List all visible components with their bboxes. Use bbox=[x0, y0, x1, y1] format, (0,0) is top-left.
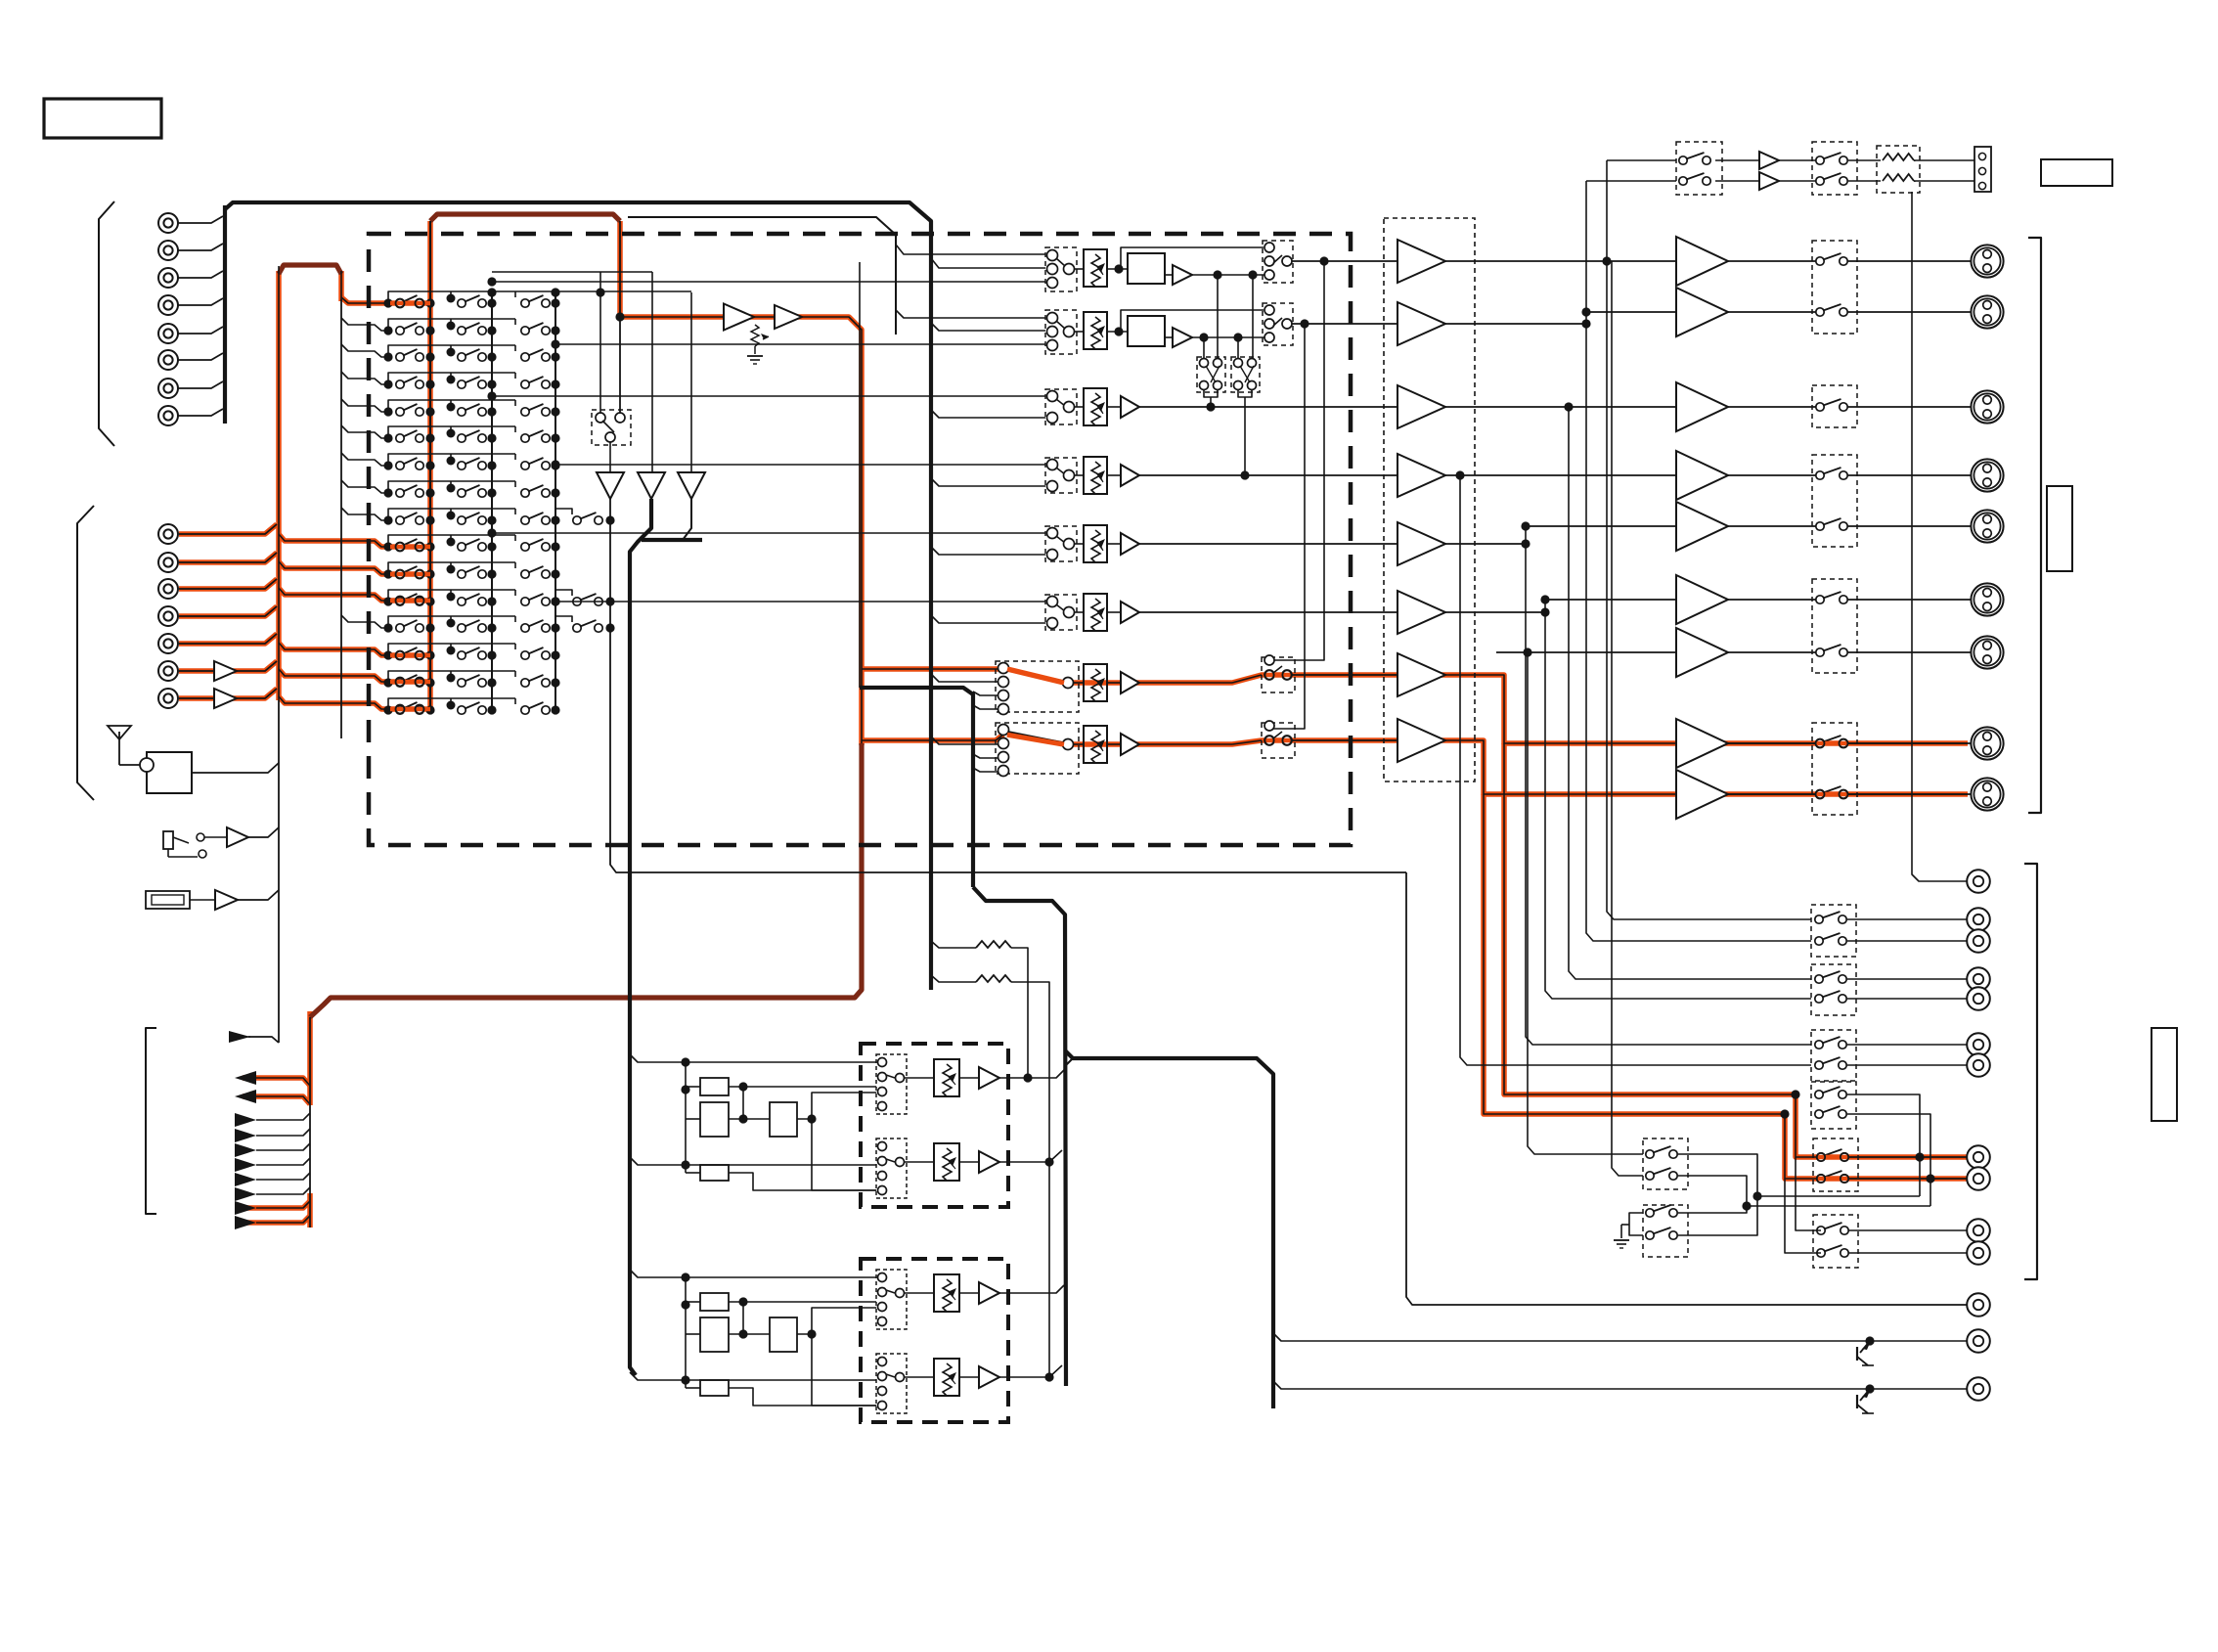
output mute switch bbox=[1816, 308, 1824, 316]
channel strip 4 selector bbox=[1045, 458, 1077, 493]
wire vbus8 bbox=[1612, 261, 1643, 1176]
label box phones bbox=[2041, 159, 2112, 186]
wire auxA out1 bbox=[999, 1070, 1064, 1078]
matrix row 6 bbox=[341, 425, 560, 443]
bracket mic inputs bbox=[77, 506, 94, 800]
strip 8 out switch bbox=[1262, 723, 1295, 758]
RCA bottom 3 bbox=[1967, 1377, 1990, 1401]
channel strip 3 fader bbox=[1084, 388, 1107, 425]
summing amp V2 bbox=[638, 472, 665, 499]
2tr out arrows bbox=[235, 1071, 256, 1085]
XLR output 7 bbox=[1971, 636, 2003, 668]
node s3 junction bbox=[1206, 402, 1215, 411]
wire A chain e bbox=[812, 1119, 876, 1190]
node s1 amp dots bbox=[1213, 270, 1221, 279]
orange switch box bbox=[1813, 1139, 1858, 1191]
wire B input 2 bbox=[630, 1372, 876, 1380]
wire out7 to switch bbox=[1728, 651, 1820, 653]
wire switch to xlr bbox=[1843, 406, 1971, 408]
wire v634 bbox=[619, 221, 621, 414]
wire msel out b bbox=[1678, 1176, 1930, 1206]
antenna bbox=[108, 726, 131, 765]
wire v667 bbox=[651, 272, 653, 472]
A amp 2 bbox=[979, 1151, 999, 1173]
wire rec single bbox=[1912, 192, 1968, 881]
wire auxA out2 bbox=[999, 1150, 1062, 1162]
B amp 2 bbox=[979, 1366, 999, 1388]
phones resistor box bbox=[1877, 146, 1920, 193]
channel strip 6 selector bbox=[1045, 595, 1077, 630]
resistor tap 1 bbox=[931, 941, 976, 948]
output mute switch bbox=[1816, 257, 1824, 265]
wire lower black b bbox=[1785, 1179, 1821, 1253]
wire switch to xlr bbox=[1843, 793, 1971, 795]
wire amp6 link bbox=[1445, 611, 1545, 613]
phones amp 1 bbox=[1759, 152, 1779, 169]
wire out5 bbox=[1526, 525, 1676, 527]
wire strip 3 out bbox=[1139, 406, 1397, 408]
channel strip 5 selector bbox=[1045, 526, 1077, 561]
channel strip 7 amp bbox=[1121, 672, 1139, 693]
wire out1 bbox=[1445, 260, 1676, 262]
wire phones feed 2 bbox=[1586, 180, 1676, 182]
resistor tap 2 bbox=[931, 975, 976, 982]
rec out switch box bbox=[1811, 905, 1856, 957]
matrix row 7 bbox=[341, 453, 560, 470]
wire lower black a bbox=[1796, 1157, 1821, 1230]
input jack A2 bbox=[158, 241, 178, 260]
input jack B5 bbox=[158, 634, 178, 653]
wire rec tap row4a bbox=[1847, 1094, 1920, 1196]
rec level pot bbox=[751, 325, 759, 346]
wire jack out bbox=[204, 836, 227, 838]
buffer amp B7 bbox=[214, 689, 237, 708]
bold aux bus out bbox=[1065, 1050, 1273, 1408]
channel strip 1 amp bbox=[1173, 265, 1192, 285]
wire drop c bbox=[1203, 337, 1205, 359]
wire ph d bbox=[1914, 159, 1974, 161]
XLR output 2 bbox=[1971, 295, 2003, 328]
wire trunk black bbox=[278, 700, 280, 1043]
wire strip 2 out bbox=[1292, 323, 1397, 325]
matrix column bus 1 bbox=[429, 221, 431, 711]
channel strip 8 fader bbox=[1084, 726, 1107, 763]
node s1 out bbox=[1319, 256, 1328, 265]
wire A chain b bbox=[729, 1118, 770, 1120]
RCA output 6 bbox=[1967, 1033, 1990, 1056]
output amp 4 bbox=[1676, 451, 1728, 500]
B selector 2 bbox=[876, 1354, 907, 1413]
matrix column bus 2 bbox=[491, 290, 493, 711]
buffer amp cassette bbox=[215, 890, 238, 910]
wire B chain e bbox=[812, 1334, 876, 1406]
wire monitor drop bbox=[1406, 872, 1968, 1305]
matrix row 8 bbox=[341, 480, 560, 498]
input jack B7 bbox=[158, 689, 178, 708]
output amp 9 bbox=[1676, 770, 1728, 819]
net REC maroon thick segments bbox=[279, 214, 862, 1017]
wire ph b bbox=[1779, 159, 1820, 161]
wire out2 to switch bbox=[1728, 311, 1820, 313]
channel strip 8 selector bbox=[996, 723, 1079, 774]
aux group A dashed box bbox=[861, 1044, 1008, 1207]
buffer amp rec 1 bbox=[724, 304, 754, 331]
matrix row 5 bbox=[341, 399, 560, 417]
mode switch box bbox=[592, 410, 631, 445]
wire vbus6 bbox=[1460, 475, 1811, 1065]
input bus vertical bbox=[223, 205, 227, 424]
matrix row 13 bbox=[341, 615, 615, 633]
wire out6 bbox=[1545, 599, 1676, 601]
output mute switch bbox=[1816, 596, 1824, 603]
RCA output 4 bbox=[1967, 967, 1990, 991]
wire A chain d bbox=[729, 1173, 876, 1190]
wire B vert bbox=[685, 1277, 687, 1388]
monitor select box 2 bbox=[1643, 1205, 1688, 1257]
wire switch to xlr bbox=[1843, 525, 1971, 527]
strip 2 out switch bbox=[1263, 303, 1293, 345]
rec out switch box bbox=[1811, 1082, 1856, 1129]
XLR output 4 bbox=[1971, 459, 2003, 491]
wire B chain a bbox=[729, 1301, 876, 1303]
bracket tape io bbox=[146, 1028, 156, 1214]
B osc block 3 bbox=[770, 1317, 797, 1352]
strip 7 out switch bbox=[1262, 657, 1295, 692]
buffer amp rec 2 bbox=[775, 305, 802, 329]
wire strip feeds from main bus bbox=[896, 245, 1045, 254]
channel strip 8 amp bbox=[1121, 734, 1139, 755]
output mute switch bbox=[1816, 403, 1824, 411]
output mute switch bbox=[1816, 522, 1824, 530]
wire vbus5 bbox=[1526, 526, 1811, 1045]
lower black switch box bbox=[1813, 1215, 1858, 1268]
B fader 2 bbox=[934, 1359, 959, 1396]
matrix row 15 bbox=[383, 671, 559, 688]
bracket xlr outputs bbox=[2028, 238, 2041, 813]
output mute switch bbox=[1816, 739, 1824, 747]
aux group B dashed box bbox=[861, 1259, 1008, 1422]
wire out3 bbox=[1445, 406, 1676, 408]
bracket line inputs bbox=[99, 201, 114, 446]
wire out5 to switch bbox=[1728, 525, 1820, 527]
wire strip 1 out bbox=[1292, 260, 1397, 262]
wire A vert bbox=[685, 1062, 687, 1173]
A osc block 4 bbox=[700, 1165, 729, 1181]
RCA output 7 bbox=[1967, 1053, 1990, 1077]
B amp 1 bbox=[979, 1282, 999, 1304]
output switch box 5 bbox=[1812, 723, 1857, 815]
wire out4 bbox=[1445, 474, 1676, 476]
RCA output 3 bbox=[1967, 929, 1990, 953]
wire amp5 link bbox=[1445, 543, 1526, 545]
dual switch box 1 bbox=[1197, 357, 1225, 392]
wire vbus4 bbox=[1545, 600, 1811, 999]
wire rec to rca bbox=[1847, 978, 1968, 980]
matrix row 10 bbox=[383, 535, 559, 552]
bus amp dotted box bbox=[1384, 218, 1475, 781]
matrix column bus 3 bbox=[554, 290, 556, 711]
wire switch to xlr bbox=[1843, 260, 1971, 262]
wire strip 2 bypass bbox=[1119, 331, 1121, 333]
input jack B6 bbox=[158, 661, 178, 681]
wire cross s1 bbox=[1273, 261, 1324, 660]
node s2 out bbox=[1300, 319, 1309, 328]
wire strip 7 out bbox=[1292, 674, 1397, 676]
wire vbus7 bbox=[1528, 652, 1643, 1154]
A amp 1 bbox=[979, 1067, 999, 1089]
output amp 2 bbox=[1676, 288, 1728, 336]
RCA output 2 bbox=[1967, 908, 1990, 931]
output switch box 2 bbox=[1812, 385, 1857, 427]
wire out9 to switch bbox=[1728, 793, 1820, 795]
node s4 junction bbox=[1240, 470, 1249, 479]
node tap a bbox=[1915, 1152, 1924, 1161]
wire strip 7 amp out bbox=[1139, 682, 1232, 684]
A fader 1 bbox=[934, 1059, 959, 1096]
node web upper bbox=[492, 271, 652, 273]
channel strip 2 selector bbox=[1045, 310, 1077, 354]
A osc block 2 bbox=[700, 1102, 729, 1137]
wire auxB out1 bbox=[999, 1285, 1064, 1293]
wire out6 to switch bbox=[1728, 599, 1820, 601]
input jack A7 bbox=[158, 379, 178, 398]
wire switch to xlr bbox=[1843, 311, 1971, 313]
wire switch to xlr bbox=[1843, 742, 1971, 744]
wire drop a bbox=[1217, 275, 1219, 359]
input jack B2 bbox=[158, 553, 178, 572]
input jack A3 bbox=[158, 268, 178, 288]
wire drop d bbox=[1237, 337, 1239, 359]
output amp 3 bbox=[1676, 382, 1728, 431]
channel strip 4 fader bbox=[1084, 457, 1107, 494]
wire switch to xlr bbox=[1843, 599, 1971, 601]
matrix row 3 bbox=[341, 344, 560, 362]
bus amp 5 bbox=[1397, 522, 1445, 565]
summing amp V1 bbox=[597, 472, 624, 499]
wire out1 to switch bbox=[1728, 260, 1820, 262]
bus amp 8 bbox=[1397, 719, 1445, 762]
node s2 amp dots bbox=[1199, 333, 1208, 341]
rec out switches bbox=[1815, 975, 1823, 983]
label box master bbox=[2047, 486, 2072, 571]
wire out4 to switch bbox=[1728, 474, 1820, 476]
wire A chain a bbox=[729, 1086, 876, 1088]
channel strip 1 fader bbox=[1084, 249, 1107, 287]
tape in arrows bbox=[235, 1113, 256, 1127]
node orange entry a bbox=[1791, 1090, 1799, 1098]
wire strip 1 bypass bbox=[1119, 268, 1121, 270]
net REC highlighted path (orange) bbox=[179, 221, 1968, 1228]
output switch box 4 bbox=[1812, 579, 1857, 673]
RCA output 1 bbox=[1967, 870, 1990, 893]
XLR output 6 bbox=[1971, 583, 2003, 615]
wire vbus3 bbox=[1569, 407, 1811, 979]
bold aux jog bbox=[973, 887, 1066, 1386]
RCA bottom 2 bbox=[1967, 1329, 1990, 1353]
dual switch box 2 bbox=[1231, 357, 1260, 392]
wire strip 6 out bbox=[1139, 611, 1397, 613]
input jack A4 bbox=[158, 295, 178, 315]
channel strip 1 block bbox=[1128, 253, 1165, 284]
output amp 6 bbox=[1676, 575, 1728, 624]
wire strip 4 out bbox=[1139, 474, 1397, 476]
wire strip 8 amp out bbox=[1139, 743, 1232, 745]
input jack A8 bbox=[158, 406, 178, 425]
B osc block 4 bbox=[700, 1380, 729, 1396]
channel strip 2 block bbox=[1128, 316, 1165, 346]
input jack B3 bbox=[158, 579, 178, 599]
B osc block 1 bbox=[700, 1293, 729, 1311]
B fader 1 bbox=[934, 1274, 959, 1312]
bus amp 1 bbox=[1397, 240, 1445, 283]
wire phones feed 1 bbox=[1607, 159, 1676, 161]
channel strip 4 amp bbox=[1121, 465, 1139, 486]
matrix row 1 bbox=[383, 291, 691, 308]
wire bottom rca3 bbox=[1273, 1381, 1968, 1389]
RCA output 9 bbox=[1967, 1167, 1990, 1190]
wire leg bbox=[340, 299, 342, 738]
wire msel out a bbox=[1678, 1154, 1920, 1196]
output mute switch bbox=[1816, 471, 1824, 479]
rec out switch box bbox=[1811, 964, 1856, 1015]
wire vbus1 bbox=[1607, 160, 1811, 919]
XLR output 8 bbox=[1971, 727, 2003, 759]
wire sub bus bbox=[628, 217, 896, 335]
matrix row 9 bbox=[341, 508, 615, 525]
XLR output 5 bbox=[1971, 510, 2003, 542]
wire ph c bbox=[1848, 159, 1881, 161]
wire strip 5 out bbox=[1139, 543, 1397, 545]
bus amp 3 bbox=[1397, 385, 1445, 428]
A selector 2 bbox=[876, 1139, 907, 1198]
monitor select box 1 bbox=[1643, 1139, 1688, 1189]
wire B chain c bbox=[797, 1308, 876, 1334]
phone jack bbox=[163, 831, 173, 849]
channel strip 3 selector bbox=[1045, 389, 1077, 424]
tuner box bbox=[147, 752, 192, 793]
bracket rec outs bbox=[2024, 864, 2037, 1279]
wire cassette out bbox=[190, 899, 215, 901]
input jack B1 bbox=[158, 524, 178, 544]
channel strip 6 fader bbox=[1084, 594, 1107, 631]
wire B chain b bbox=[729, 1333, 770, 1335]
wire v707 bbox=[690, 292, 692, 472]
wire msel2 a bbox=[1678, 1206, 1747, 1213]
strip 1 out switch bbox=[1263, 241, 1293, 283]
output amp 8 bbox=[1676, 719, 1728, 768]
channel strip 1 selector bbox=[1045, 247, 1077, 291]
wire vbus2 bbox=[1586, 181, 1811, 941]
RCA output 8 bbox=[1967, 1145, 1990, 1169]
rec out switches bbox=[1815, 1091, 1823, 1098]
bold bus elbow bbox=[630, 499, 651, 1375]
rec out switches bbox=[1815, 1041, 1823, 1049]
output amp 1 bbox=[1676, 237, 1728, 286]
bus amp 4 bbox=[1397, 454, 1445, 497]
channel strip 5 amp bbox=[1121, 533, 1139, 555]
cassette connector bbox=[146, 891, 190, 909]
muting transistor bbox=[1865, 1384, 1874, 1393]
wire out7 bbox=[1496, 651, 1676, 653]
wire monitor bbox=[610, 499, 1406, 872]
wire A chain c bbox=[797, 1093, 876, 1119]
wire tuner out bbox=[192, 763, 279, 773]
output mute switch bbox=[1816, 648, 1824, 656]
wire out3 to switch bbox=[1728, 406, 1820, 408]
matrix row 4 bbox=[341, 372, 560, 389]
XLR output 1 bbox=[1971, 245, 2003, 277]
channel strip 3 amp bbox=[1121, 396, 1139, 418]
wire B chain d bbox=[729, 1388, 876, 1406]
wire switch to xlr bbox=[1843, 651, 1971, 653]
bus amp 7 bbox=[1397, 653, 1445, 696]
input jack A6 bbox=[158, 350, 178, 370]
matrix row 11 bbox=[383, 562, 559, 579]
wire ph a bbox=[1715, 159, 1759, 161]
wire switch to xlr bbox=[1843, 474, 1971, 476]
XLR output 9 bbox=[1971, 778, 2003, 810]
label box rec bbox=[2151, 1028, 2177, 1121]
A fader 2 bbox=[934, 1143, 959, 1181]
matrix row 14 bbox=[383, 644, 559, 660]
node B taps bbox=[681, 1272, 689, 1281]
buffer amp jack bbox=[227, 827, 248, 847]
feed arrow bbox=[229, 1031, 250, 1043]
phones switch box A bbox=[1676, 142, 1722, 195]
phones switch box B bbox=[1812, 142, 1857, 195]
wire drop b bbox=[1252, 275, 1254, 359]
channel strip 2 amp bbox=[1173, 328, 1192, 347]
channel strip 6 amp bbox=[1121, 602, 1139, 623]
channel strip 5 fader bbox=[1084, 525, 1107, 562]
RCA output 11 bbox=[1967, 1241, 1990, 1265]
wire out2 bbox=[1586, 311, 1676, 313]
wire strip7/8 extra feeds bbox=[859, 262, 861, 688]
wire cross s2 bbox=[1273, 324, 1305, 729]
wire A input 2 bbox=[630, 1157, 876, 1165]
rec out switches bbox=[1815, 915, 1823, 923]
rec out switch box bbox=[1811, 1030, 1856, 1081]
phones amp 2 bbox=[1759, 172, 1779, 190]
wire strip 2 amp out bbox=[1192, 336, 1265, 338]
bus amp 2 bbox=[1397, 302, 1445, 345]
A selector 1 bbox=[876, 1054, 907, 1114]
ground bbox=[1629, 1213, 1643, 1235]
output amp 7 bbox=[1676, 628, 1728, 677]
B selector 1 bbox=[876, 1270, 907, 1329]
matrix row 2 bbox=[341, 318, 560, 335]
phones jack bbox=[1974, 147, 1991, 192]
RCA bottom 1 bbox=[1967, 1293, 1990, 1317]
wire msel2 b bbox=[1678, 1196, 1757, 1235]
RCA output 5 bbox=[1967, 987, 1990, 1010]
wire rec to rca bbox=[1847, 918, 1968, 920]
output switch box 1 bbox=[1812, 241, 1857, 334]
wire v614 bbox=[599, 272, 601, 414]
wire out8 to switch bbox=[1728, 742, 1820, 744]
B osc block 2 bbox=[700, 1317, 729, 1352]
output switch box 3 bbox=[1812, 455, 1857, 547]
wire B input 1 bbox=[630, 1270, 876, 1277]
input jack B4 bbox=[158, 606, 178, 626]
wire trunk2 core bbox=[309, 1017, 311, 1228]
node A taps bbox=[681, 1057, 689, 1066]
dashed master box bbox=[369, 234, 1351, 845]
muting transistor bbox=[1865, 1336, 1874, 1345]
wire bottom rca2 bbox=[1273, 1333, 1968, 1341]
wire main bus top bbox=[225, 202, 931, 990]
channel strip 7 selector bbox=[996, 661, 1079, 712]
